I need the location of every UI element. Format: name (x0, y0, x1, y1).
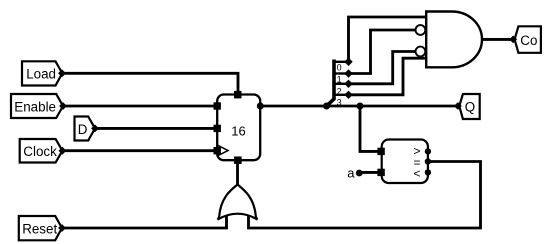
svg-text:Enable: Enable (14, 99, 56, 114)
input pin Enable (11, 94, 67, 118)
output pin Co (509, 26, 541, 53)
input pin Load (22, 61, 66, 85)
comparator U3 (377, 140, 431, 184)
pin a (top-left) (377, 148, 384, 155)
wire splitter leg3 to AND input 4 (349, 58, 427, 95)
node comparator branch junction (357, 103, 364, 110)
pin clr (bottom) (234, 157, 242, 165)
svg-text:a: a (347, 166, 355, 181)
wire node to comparator input A (360, 106, 382, 151)
splitter leg 0 (334, 61, 349, 63)
splitter leg 1 (334, 72, 349, 74)
pin gt output (425, 148, 431, 154)
svg-text:Load: Load (26, 67, 56, 82)
splitter leg 3 (334, 94, 349, 96)
svg-text:D: D (78, 122, 88, 137)
bubble input 2 (416, 25, 426, 35)
bubble input 3 (416, 47, 426, 57)
wire Reset to OR gate left input (62, 214, 227, 228)
AND gate U2 (416, 12, 483, 68)
pin eq output (425, 158, 431, 164)
svg-text:Co: Co (520, 33, 537, 48)
node splitter junction (323, 103, 330, 110)
splitter (327, 58, 353, 108)
pin out (right) (257, 103, 264, 110)
wire D to counter (95, 127, 217, 130)
splitter leg 2 (334, 83, 349, 85)
pin lt output (425, 169, 431, 175)
output pin Q (454, 94, 480, 119)
pin b (bottom-left) (377, 169, 384, 176)
svg-text:0: 0 (337, 62, 342, 72)
svg-text:Q: Q (465, 99, 475, 114)
wire splitter leg1 to AND input 2 (349, 30, 416, 74)
wire AND output to Co (482, 38, 513, 41)
pin D (214, 125, 221, 132)
counter U1 (214, 91, 264, 164)
wire Clock to counter (62, 149, 217, 152)
wire OR output to counter bottom (236, 160, 239, 185)
input pin D (75, 117, 99, 141)
svg-text:<: < (414, 166, 421, 180)
pin en (214, 102, 221, 109)
OR gate U4 (218, 185, 258, 220)
constant a (347, 166, 362, 181)
wire Load to counter top (62, 73, 238, 94)
wire comparator equal output to OR gate right input (249, 162, 481, 229)
wire constant a to comparator input B (359, 171, 382, 174)
wire counter output to Q (260, 105, 457, 108)
svg-text:16: 16 (231, 124, 245, 139)
pin load (top) (234, 91, 242, 99)
wire splitter leg0 to AND input 1 (349, 17, 427, 62)
wire Enable to counter (63, 105, 217, 108)
pin clock chevron (217, 145, 228, 156)
svg-text:Clock: Clock (23, 144, 57, 159)
input pin Reset (19, 216, 66, 240)
svg-text:3: 3 (337, 98, 342, 108)
input pin Clock (20, 139, 67, 163)
splitter bar (327, 60, 335, 107)
wire splitter leg2 to AND input 3 (349, 52, 416, 84)
svg-text:Reset: Reset (22, 222, 57, 237)
